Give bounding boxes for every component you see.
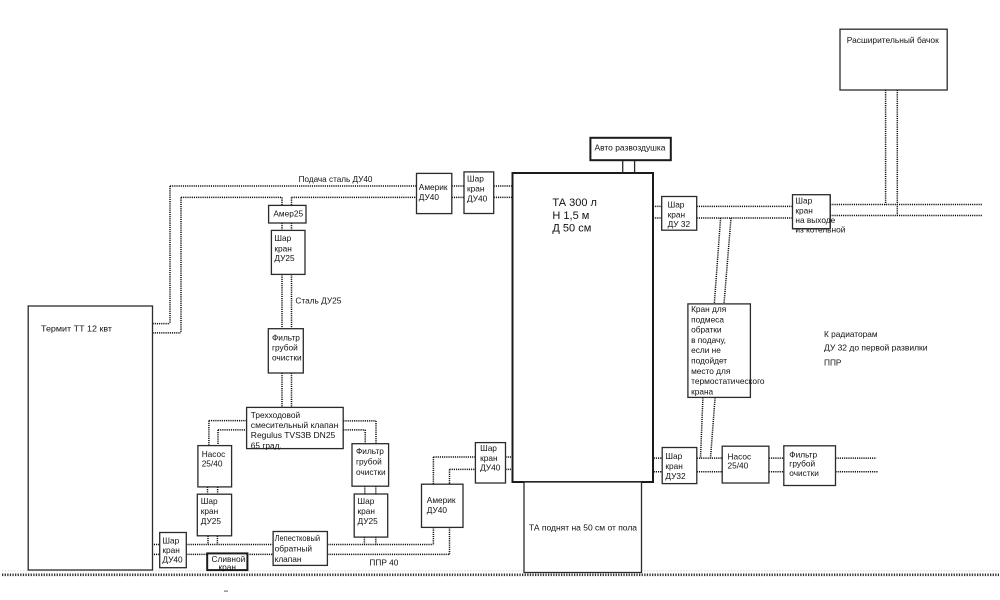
wire Шар кран ДУ25 down pipe (Сталь ДУ25) [282,274,292,328]
valve Шар кран на выходе из котельной [793,195,846,235]
wire bottom return line B (ППР 40) [152,553,450,555]
svg-text:ДУ40: ДУ40 [467,194,488,204]
wire verticals up to Америк ДУ40 bottom [433,527,449,554]
svg-text:Д 50 см: Д 50 см [552,223,591,235]
wire bottom right row supply [654,457,877,459]
svg-text:Кран для: Кран для [691,304,726,314]
svg-text:термостатического: термостатического [691,376,765,386]
svg-text:если не: если не [691,345,721,355]
svg-text:грубой: грубой [356,457,382,467]
svg-text:Лепестковый: Лепестковый [275,533,321,543]
svg-text:Шар: Шар [668,200,685,210]
svg-text:Шар: Шар [358,496,375,506]
svg-text:25/40: 25/40 [728,461,749,471]
svg-text:кран: кран [162,545,179,555]
svg-text:25/40: 25/40 [202,458,223,468]
wire Шар кран ДУ 32 to outlet valve [697,206,793,218]
svg-text:Н 1,5 м: Н 1,5 м [552,210,589,222]
svg-text:крана: крана [691,386,713,396]
svg-text:кран: кран [219,562,236,572]
drain valve Сливной кран [207,553,247,572]
wire bottom right row return [654,471,878,473]
svg-text:ТА поднят на 50 см от пола: ТА поднят на 50 см от пола [529,522,637,532]
svg-text:место для: место для [691,366,730,376]
wire valve to bottom line middle column [364,537,375,544]
valve Шар кран ДУ25 upper [271,230,305,274]
svg-text:кран: кран [795,206,812,216]
svg-text:Фильтр: Фильтр [356,446,384,456]
wire supply line top (Подача сталь ДУ40) [170,185,513,187]
svg-text:ДУ 32 до первой развилки: ДУ 32 до первой развилки [824,342,928,352]
svg-text:ДУ40: ДУ40 [162,555,183,565]
svg-text:Америк: Америк [427,495,456,505]
valve Шар кран ДУ 32 tank outlet [662,197,697,231]
svg-text:кран: кран [201,506,218,516]
svg-text:К радиаторам: К радиаторам [824,329,878,339]
svg-text:Шар: Шар [665,451,682,461]
svg-text:Шар: Шар [467,174,484,184]
svg-text:Америк: Америк [419,182,448,192]
valve Шар кран ДУ40 right [475,443,505,483]
svg-text:Амер25: Амер25 [273,208,303,218]
svg-text:Шар: Шар [795,196,812,206]
svg-text:65 град.: 65 град. [251,440,282,450]
svg-text:ДУ25: ДУ25 [274,253,295,263]
stand ТА поднят на 50 см от пола [524,482,642,573]
svg-text:ППР: ППР [824,357,842,367]
valve Шар кран ДУ25 middle [354,494,388,537]
svg-text:грубой: грубой [789,459,815,469]
svg-text:Фильтр: Фильтр [272,332,300,342]
wire outlet valve to radiators [830,205,982,216]
wire tank right to Шар кран ДУ 32 [653,206,662,218]
wire filter to valve middle column [365,486,376,494]
svg-text:обратки: обратки [691,325,722,335]
wire return line top [181,196,513,198]
three-way mixing valve Regulus TVS3B DN25 [247,407,344,450]
fitting Америк ДУ40 top [417,173,452,213]
svg-text:ДУ32: ДУ32 [665,471,686,481]
valve Шар кран ДУ40 bottom left [160,533,187,568]
wire return left wrap to boiler [153,197,181,333]
svg-text:ДУ25: ДУ25 [358,516,379,526]
wire supply left wrap to boiler [153,186,170,324]
pump Насос 25/40 bottom [722,446,769,483]
svg-text:кран: кран [480,453,497,463]
wire drop to Амер25 [282,197,292,205]
floor line [2,573,999,576]
svg-text:кран: кран [665,461,682,471]
svg-text:Шар: Шар [274,233,291,243]
wire slanted to mixing tap box [714,218,731,304]
wire Америк ДУ40 top to Шар кран ДУ40 [433,457,475,484]
svg-text:Трехходовой: Трехходовой [251,410,301,420]
svg-text:кран: кран [467,184,484,194]
svg-text:ППР 40: ППР 40 [369,558,398,568]
faint line above floor [2,570,999,572]
wire pump to valve left column [208,487,218,494]
fitting Амер25 [269,205,306,223]
svg-text:Сталь ДУ25: Сталь ДУ25 [295,295,341,305]
air vent Авто развоздушка [590,138,670,173]
boiler Термит ТТ 12 квт [28,306,152,570]
wire valve to bottom line left column [208,536,217,545]
pump Насос 25/40 left [198,446,232,487]
check valve Лепестковый обратный клапан [273,532,327,566]
svg-text:Шар: Шар [162,535,179,545]
mixing tap box Кран для подмеса [688,304,765,398]
wire Шар кран ДУ40 to tank left [506,457,513,469]
svg-text:подмеса: подмеса [691,314,724,324]
svg-text:Regulus TVS3B DN25: Regulus TVS3B DN25 [251,430,336,440]
fitting Америк ДУ40 bottom [422,484,464,527]
valve Шар кран ДУ25 left [197,494,231,536]
svg-text:подойдет: подойдет [691,356,727,366]
svg-text:ДУ40: ДУ40 [419,192,440,202]
filter Фильтр грубой очистки upper [268,329,303,373]
svg-text:Термит ТТ 12 квт: Термит ТТ 12 квт [41,324,112,334]
filter Фильтр грубой очистки middle [352,444,389,487]
wire filter to three-way valve [282,373,292,407]
wire three-way valve right stubs to filter [343,421,376,444]
expansion tank Расширительный бачок [840,29,947,90]
svg-text:из котельной: из котельной [795,225,845,235]
svg-text:Шар: Шар [480,443,497,453]
svg-text:Расширительный бачок: Расширительный бачок [847,35,939,45]
svg-text:ДУ40: ДУ40 [427,505,448,515]
svg-text:кран: кран [358,506,375,516]
svg-text:очистки: очистки [789,468,819,478]
svg-text:Авто развоздушка: Авто развоздушка [595,143,666,153]
svg-text:кран: кран [274,243,291,253]
svg-text:кран: кран [668,209,685,219]
wire bottom return line A [152,544,434,546]
small dash artifact [224,591,228,592]
svg-text:ТА 300 л: ТА 300 л [552,197,597,209]
svg-text:грубой: грубой [272,343,298,353]
svg-text:очистки: очистки [272,353,302,363]
svg-text:в подачу,: в подачу, [691,335,726,345]
svg-text:ДУ40: ДУ40 [480,462,501,472]
valve Шар кран ДУ40 top [464,172,494,214]
svg-text:Шар: Шар [201,496,218,506]
svg-text:Подача сталь ДУ40: Подача сталь ДУ40 [299,174,373,184]
wire expansion tank drops [886,90,898,216]
wire three-way valve left stubs to pump [209,421,247,446]
wire Амер25 to Шар кран ДУ25 [282,223,292,230]
valve Шар кран ДУ32 bottom [662,448,697,484]
svg-text:очистки: очистки [356,467,386,477]
wire slanted from mixing tap box down [701,397,716,458]
svg-text:Насос: Насос [202,449,226,459]
tank ТА 300 л [513,173,654,482]
svg-text:смесительный клапан: смесительный клапан [251,420,338,430]
svg-text:ДУ 32: ДУ 32 [668,219,691,229]
svg-text:ДУ25: ДУ25 [201,516,222,526]
filter Фильтр грубой очистки bottom [784,446,836,486]
svg-text:клапан: клапан [275,554,302,564]
svg-text:обратный: обратный [275,543,313,553]
